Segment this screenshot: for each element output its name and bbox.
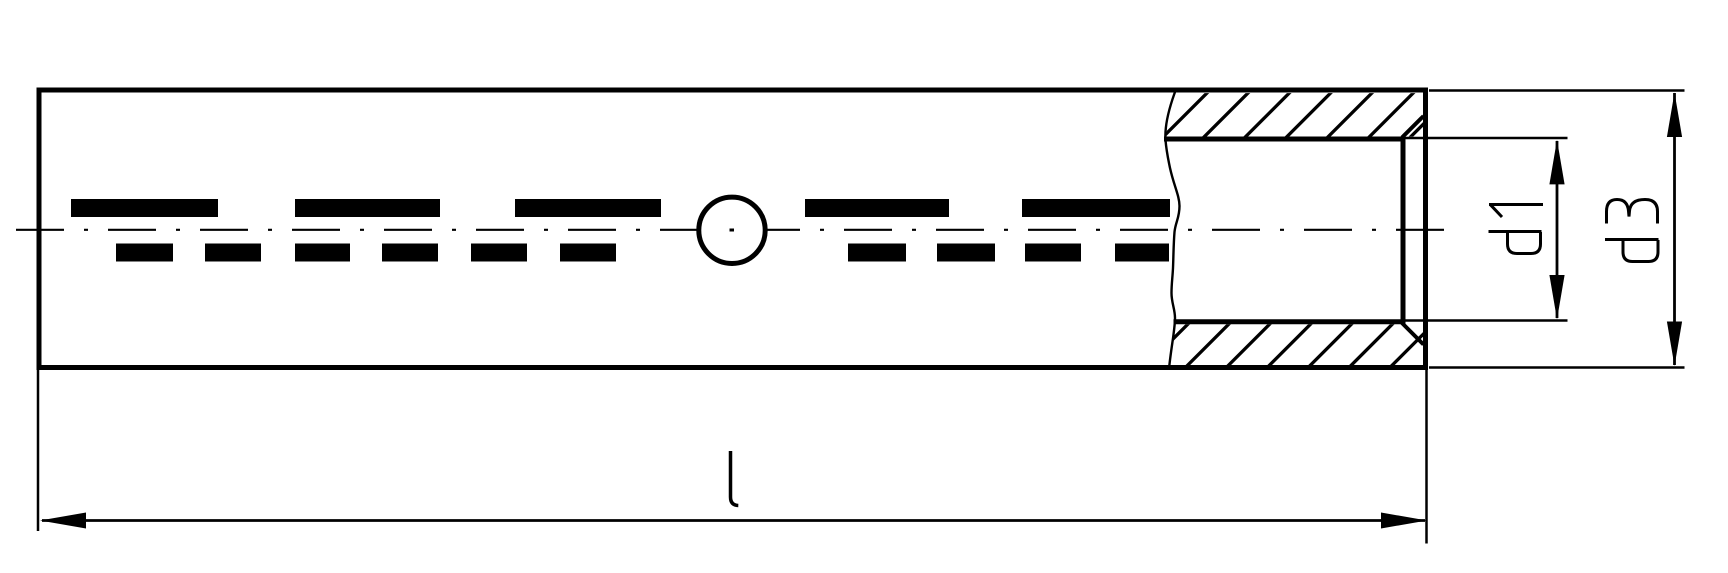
knurl bar B8 <box>937 244 995 262</box>
knurl bar T4 <box>805 199 949 217</box>
chamfer top <box>1402 116 1424 138</box>
l dimension line <box>42 519 1425 522</box>
d3 extension line top <box>1429 89 1685 92</box>
circle center dot <box>730 229 735 232</box>
d1 arrow top <box>1549 140 1564 185</box>
knurl bar B3 <box>295 244 350 262</box>
knurl bar B10 <box>1115 244 1169 262</box>
centerline axis <box>16 229 1452 231</box>
d1 arrow bottom <box>1549 275 1564 320</box>
bore top line <box>1164 137 1403 142</box>
l arrow left <box>40 513 86 529</box>
hatching bottom band <box>1144 321 1478 369</box>
knurl bar B7 <box>848 244 906 262</box>
knurl bar T1 <box>71 199 218 217</box>
knurl bar B9 <box>1025 244 1081 262</box>
d3 extension line bottom <box>1429 366 1685 369</box>
bore bottom line <box>1174 319 1404 324</box>
chamfer bottom <box>1402 323 1424 345</box>
knurl bar B1 <box>116 244 173 262</box>
knurl bar B5 <box>471 244 527 262</box>
l arrow right <box>1381 513 1427 529</box>
d1 dimension line <box>1556 141 1559 318</box>
break line <box>1165 88 1179 369</box>
d3 dimension line <box>1673 93 1676 365</box>
label d1 <box>1489 205 1544 254</box>
l extension line right <box>1425 370 1428 544</box>
hatching top band <box>1161 88 1501 139</box>
knurl bar T3 <box>515 199 661 217</box>
knurl bar T5 <box>1022 199 1170 217</box>
body outline <box>39 90 1426 368</box>
knurl bar B4 <box>382 244 438 262</box>
inspection hole circle <box>699 197 765 263</box>
bore end face vertical <box>1401 137 1406 325</box>
knurl bar T2 <box>295 199 440 217</box>
label d3 <box>1605 200 1659 262</box>
label l <box>731 451 739 506</box>
knurl bar B2 <box>205 244 261 262</box>
d3 arrow top <box>1667 93 1682 138</box>
l extension line left <box>37 370 40 532</box>
d1 extension line top <box>1403 137 1568 140</box>
d3 arrow bottom <box>1667 322 1682 367</box>
d1 extension line bottom <box>1403 319 1568 322</box>
knurl bar B6 <box>560 244 616 262</box>
